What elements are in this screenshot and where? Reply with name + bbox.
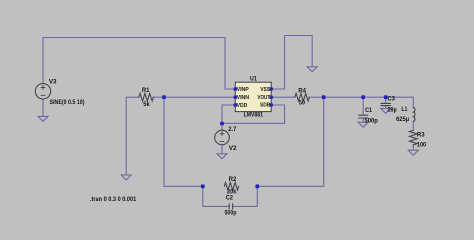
capacitor C3 xyxy=(381,103,391,105)
svg-text:R3: R3 xyxy=(417,132,425,139)
wire output row to L1 corner xyxy=(324,97,414,107)
wire V3 bottom to ground xyxy=(42,99,44,116)
svg-text:LMV881: LMV881 xyxy=(244,112,264,118)
svg-text:VINN: VINN xyxy=(237,95,250,101)
svg-text:.tran 0 0.3 0 0.001: .tran 0 0.3 0 0.001 xyxy=(90,196,137,203)
wire VOUT to R4 xyxy=(271,96,295,98)
wire C3 top lead xyxy=(385,97,387,103)
wire L1 to R3 xyxy=(412,121,414,130)
wire SDB loop to VDD node xyxy=(222,105,285,123)
inductor L1 xyxy=(413,107,415,121)
svg-text:R1: R1 xyxy=(142,87,150,94)
ground below R1 left branch xyxy=(121,175,131,180)
wire R2 right node to feedback vertical xyxy=(257,97,323,186)
svg-text:VDD: VDD xyxy=(237,103,248,109)
wire C3 bottom lead xyxy=(385,106,387,108)
node output xyxy=(322,95,326,99)
ground below V3 xyxy=(38,116,48,121)
svg-text:500p: 500p xyxy=(365,118,378,125)
svg-text:2.7: 2.7 xyxy=(228,126,237,133)
wire node A down to feedback row xyxy=(164,97,203,186)
wire C2 branch left xyxy=(203,186,229,206)
ground of VSS loop xyxy=(307,67,317,72)
resistor R2 xyxy=(224,183,238,191)
svg-text:R2: R2 xyxy=(229,176,237,183)
wire C1 top lead xyxy=(362,97,364,115)
svg-text:R4: R4 xyxy=(298,88,306,95)
capacitor C2 xyxy=(229,204,232,209)
node C1 top xyxy=(361,95,365,99)
capacitor C1 xyxy=(359,115,368,118)
svg-text:V3: V3 xyxy=(49,78,57,85)
svg-text:SINE(0 0.5 10): SINE(0 0.5 10) xyxy=(50,99,85,106)
ground below R3 xyxy=(408,150,418,155)
node C3 top xyxy=(384,95,388,99)
svg-text:U1: U1 xyxy=(250,77,257,83)
ground below C1 xyxy=(358,122,368,127)
svg-text:VSS: VSS xyxy=(260,87,270,93)
resistor R1 xyxy=(139,93,153,101)
svg-text:50: 50 xyxy=(299,100,305,107)
wire node A to VINN xyxy=(164,96,235,98)
node A xyxy=(162,95,166,99)
node junction dots xyxy=(162,95,387,188)
svg-text:100: 100 xyxy=(417,141,427,148)
ground below C3 xyxy=(381,108,391,113)
node VDD-SDB junction xyxy=(220,122,224,126)
wire R3 to ground xyxy=(412,145,414,150)
svg-text:625µ: 625µ xyxy=(396,116,409,123)
node pins of U1 xyxy=(234,87,273,106)
resistor R4 xyxy=(295,93,309,101)
svg-text:C2: C2 xyxy=(226,195,234,202)
wire V2 bottom to ground xyxy=(221,145,223,154)
wire VSS to ground loop xyxy=(271,36,312,90)
wire C2 branch right xyxy=(233,186,258,206)
op-amp U1 body xyxy=(235,82,271,111)
voltage source V2 xyxy=(215,130,230,145)
wire R1 left to ground branch xyxy=(126,97,139,175)
wire input top rail V3 to VINP xyxy=(43,38,235,90)
ground below V2 xyxy=(217,154,227,159)
voltage source V3 xyxy=(35,84,50,99)
wire VDD to V2 xyxy=(222,105,235,130)
wire R4 to output node xyxy=(309,96,323,98)
wire R1 right to node A xyxy=(153,96,164,98)
wire C1 bottom lead xyxy=(362,118,364,122)
resistor R3 xyxy=(410,130,418,144)
node feedback right xyxy=(255,184,259,188)
svg-text:L1: L1 xyxy=(401,106,407,113)
svg-text:C3: C3 xyxy=(387,96,395,103)
svg-text:VOUT: VOUT xyxy=(257,95,270,101)
svg-text:28µ: 28µ xyxy=(387,106,396,113)
svg-text:5k: 5k xyxy=(143,101,150,108)
node feedback left xyxy=(201,184,205,188)
svg-text:SDB: SDB xyxy=(260,103,270,109)
svg-text:500p: 500p xyxy=(225,210,237,217)
svg-text:VINP: VINP xyxy=(237,87,249,93)
svg-text:C1: C1 xyxy=(365,107,372,114)
svg-text:V2: V2 xyxy=(229,145,237,152)
